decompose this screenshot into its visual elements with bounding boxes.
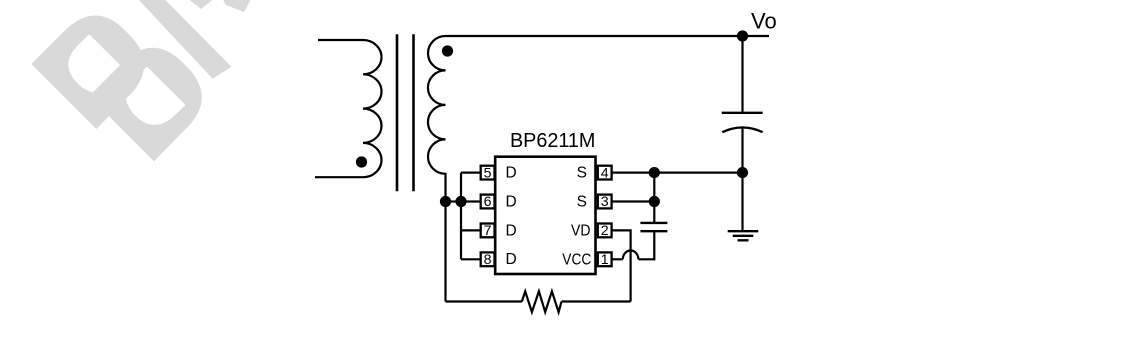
svg-text:D: D bbox=[506, 193, 517, 210]
wiring group bbox=[315, 34, 769, 312]
transformer secondary winding + top Vo rail wire bbox=[428, 36, 769, 302]
wire C1 to ground bbox=[741, 128, 743, 231]
wire stub pin6 bbox=[461, 200, 482, 202]
svg-text:VCC: VCC bbox=[562, 252, 591, 269]
transformer primary winding T1 bbox=[315, 40, 382, 177]
capacitor C2 plates bbox=[640, 223, 667, 231]
wire pin2 VD down to feedback resistor bbox=[611, 230, 631, 301]
wire hop over VD line bbox=[623, 250, 639, 259]
node dot Vo bbox=[737, 30, 748, 41]
ground symbol bbox=[728, 231, 759, 240]
wire stub pin8 bbox=[461, 258, 482, 260]
svg-text:7: 7 bbox=[484, 223, 492, 239]
wire D-pin bus bbox=[460, 173, 462, 260]
pin 3 square bbox=[598, 194, 612, 210]
wire stub pin5 bbox=[461, 172, 482, 174]
pin 6 square bbox=[481, 194, 495, 210]
resistor R1 bbox=[522, 291, 562, 312]
pin 4 square bbox=[598, 165, 612, 181]
capacitor C1 polarized bottom curved plate bbox=[722, 127, 762, 132]
wire pin1 VCC to hop bbox=[611, 258, 623, 260]
node dot S/ground bbox=[737, 167, 748, 178]
pin 7 square bbox=[481, 223, 495, 239]
svg-text:4: 4 bbox=[601, 165, 609, 181]
svg-text:S: S bbox=[577, 193, 587, 210]
pin 8 square bbox=[481, 252, 495, 268]
svg-text:BP6211M: BP6211M bbox=[510, 129, 596, 152]
svg-text:D: D bbox=[506, 165, 517, 182]
wire stub pin7 bbox=[461, 229, 482, 231]
svg-text:Vo: Vo bbox=[751, 9, 777, 34]
svg-text:1: 1 bbox=[601, 252, 609, 268]
svg-text:S: S bbox=[577, 165, 587, 182]
phase dot secondary bbox=[442, 45, 453, 56]
node dot bus bbox=[455, 196, 466, 207]
pin 1 square bbox=[598, 252, 612, 268]
svg-text:8: 8 bbox=[484, 252, 492, 268]
svg-text:D: D bbox=[506, 222, 517, 239]
junction dots bbox=[356, 30, 748, 207]
svg-text:3: 3 bbox=[601, 194, 609, 210]
pin 2 square bbox=[598, 223, 612, 239]
wire pin3 S to cap node bbox=[611, 200, 655, 202]
capacitor C1 polarized top plate bbox=[722, 112, 763, 114]
watermark BP bbox=[31, 0, 250, 161]
node dot winding/bus left bbox=[440, 196, 451, 207]
svg-text:D: D bbox=[506, 251, 517, 268]
wire secondary bottom to D-pin bus bbox=[446, 200, 462, 202]
transformer core bbox=[397, 34, 414, 191]
IC U1 BP6211M body bbox=[495, 157, 595, 274]
pin 5 square bbox=[481, 165, 495, 181]
svg-text:5: 5 bbox=[484, 165, 492, 181]
phase dot primary bbox=[356, 156, 367, 167]
node dot pin3 line bbox=[649, 196, 660, 207]
wire C2 bottom down and left to hop bbox=[638, 231, 654, 259]
svg-text:VD: VD bbox=[571, 222, 591, 239]
wire pin4 node down to capacitor C2 bbox=[653, 173, 655, 223]
wire Vo down to output capacitor C1 bbox=[741, 36, 743, 113]
wire bottom left segment bbox=[446, 300, 522, 302]
svg-text:2: 2 bbox=[601, 223, 609, 239]
wire pin4 S to Vo node bbox=[611, 172, 743, 174]
node dot pin4 line bbox=[649, 167, 660, 178]
svg-text:6: 6 bbox=[484, 194, 492, 210]
wire bottom right segment bbox=[562, 300, 631, 302]
